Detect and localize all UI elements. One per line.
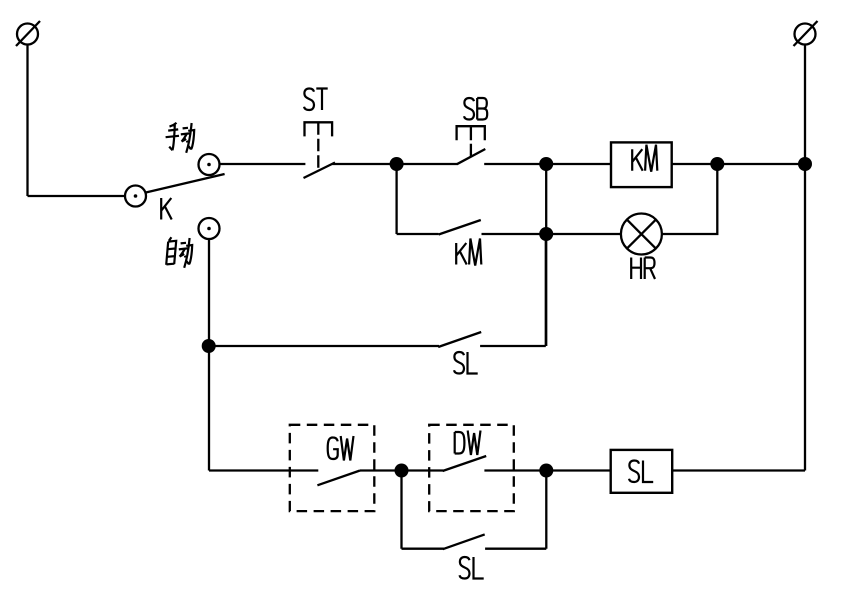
solenoid SL box — [611, 450, 673, 493]
wire row3 up to node E — [545, 234, 547, 346]
wire node F to SL contact — [209, 345, 439, 347]
pushbutton ST — [304, 122, 336, 178]
wire node B to KM coil — [546, 163, 611, 165]
contact SL upper — [438, 332, 546, 347]
label SL bottom — [460, 557, 484, 579]
limit switch box DW — [429, 425, 514, 511]
wire ST to node A — [332, 163, 396, 165]
label 手动 — [166, 123, 195, 153]
node A junction — [390, 157, 404, 171]
node B junction — [539, 157, 553, 171]
wire row4 from 自动 drop — [209, 469, 318, 471]
label HR — [631, 258, 655, 280]
node H junction — [539, 464, 553, 478]
wire SL box to right rail — [672, 469, 805, 471]
wire lamp to node C — [662, 164, 717, 234]
wire node E to lamp — [546, 233, 621, 235]
lamp HR — [621, 214, 662, 255]
terminal right — [794, 21, 818, 46]
wire SL bottom up to node H — [545, 471, 547, 549]
wire left drop — [26, 45, 28, 197]
switch K blade — [146, 174, 225, 193]
label KM aux — [456, 239, 481, 266]
wire node C to right rail — [717, 163, 805, 165]
node D junction on right rail — [798, 157, 812, 171]
wire node A to SB — [397, 163, 458, 165]
terminal left — [16, 21, 40, 46]
switch K common contact — [125, 186, 146, 207]
label ST — [304, 89, 328, 111]
node G junction — [395, 464, 409, 478]
wire 手动 to ST — [220, 163, 306, 165]
node 自动 contact — [199, 218, 220, 239]
node E junction — [539, 227, 553, 241]
label SL upper — [454, 352, 478, 374]
wire node B down to SL row — [545, 164, 547, 346]
wire to SL bottom contact — [402, 548, 445, 550]
label K — [161, 198, 172, 220]
contact SL bottom — [443, 534, 547, 549]
contactor coil KM — [611, 142, 672, 187]
limit switch box GW — [290, 425, 375, 511]
wire right rail — [804, 45, 806, 471]
wire 自动 down — [208, 239, 210, 470]
node 手动 contact — [199, 154, 220, 175]
contact KM auxiliary — [439, 220, 547, 235]
wire to switch K — [28, 195, 126, 197]
contact GW — [317, 471, 401, 486]
wire node A down — [395, 164, 397, 234]
label 自动 — [166, 237, 192, 268]
wire node G down — [400, 471, 402, 549]
wire node H to SL box — [546, 469, 610, 471]
label SB — [464, 98, 487, 120]
contact DW — [443, 456, 547, 471]
pushbutton SB — [457, 126, 486, 164]
wire node G to DW — [402, 469, 444, 471]
wire to KM aux contact — [397, 233, 439, 235]
node C junction — [710, 157, 724, 171]
wire SB to node B — [484, 163, 546, 165]
wire KM coil to node C — [672, 163, 718, 165]
node F junction — [202, 339, 216, 353]
